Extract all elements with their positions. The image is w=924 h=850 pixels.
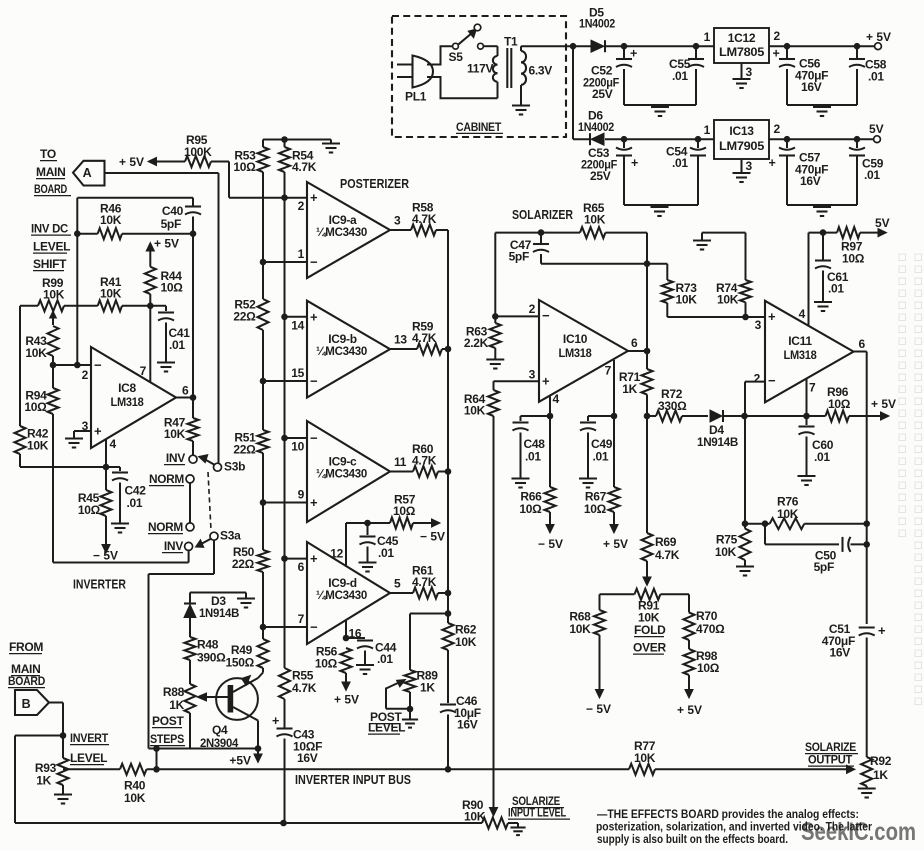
svg-text:LM318: LM318 xyxy=(111,395,145,409)
svg-text:6: 6 xyxy=(631,336,638,350)
svg-text:10K: 10K xyxy=(717,293,739,307)
svg-text:10Ω: 10Ω xyxy=(161,281,184,295)
svg-text:330Ω: 330Ω xyxy=(658,399,687,413)
svg-text:3: 3 xyxy=(82,419,89,433)
svg-text:FOLD: FOLD xyxy=(634,623,666,637)
svg-text:2N3904: 2N3904 xyxy=(200,736,239,750)
svg-text:A: A xyxy=(83,166,92,180)
svg-text:+: + xyxy=(94,424,102,439)
svg-text:−: − xyxy=(310,431,318,446)
svg-text:STEPS: STEPS xyxy=(150,732,184,746)
svg-text:4: 4 xyxy=(553,392,560,406)
svg-text:−: − xyxy=(310,255,318,270)
svg-text:R70: R70 xyxy=(696,609,718,623)
svg-text:10: 10 xyxy=(291,440,304,454)
svg-text:PL1: PL1 xyxy=(405,90,427,104)
svg-text:16V: 16V xyxy=(801,80,822,94)
svg-text:LEVEL: LEVEL xyxy=(70,751,107,765)
svg-text:¼MC3430: ¼MC3430 xyxy=(316,590,367,602)
svg-text:IC13: IC13 xyxy=(729,124,754,138)
svg-text:4: 4 xyxy=(110,437,117,451)
svg-text:4.7K: 4.7K xyxy=(412,331,437,345)
svg-text:4.7K: 4.7K xyxy=(292,681,317,695)
svg-text:7: 7 xyxy=(140,364,147,378)
svg-text:10Ω: 10Ω xyxy=(697,661,720,675)
svg-text:22Ω: 22Ω xyxy=(233,310,256,324)
svg-text:4.7K: 4.7K xyxy=(292,160,317,174)
svg-text:10K: 10K xyxy=(569,622,591,636)
svg-text:22Ω: 22Ω xyxy=(233,443,256,457)
svg-text:10K: 10K xyxy=(25,346,47,360)
svg-text:NORM: NORM xyxy=(148,520,183,534)
svg-text:+5V: +5V xyxy=(229,754,251,768)
svg-text:10Ω: 10Ω xyxy=(393,504,416,518)
svg-text:S3a: S3a xyxy=(220,529,241,543)
svg-text:IC9-c: IC9-c xyxy=(329,455,357,469)
svg-text:R92: R92 xyxy=(870,754,892,768)
svg-text:2: 2 xyxy=(82,368,89,382)
svg-text:Q4: Q4 xyxy=(212,723,228,737)
svg-text:NORM: NORM xyxy=(149,472,184,486)
svg-text:R69: R69 xyxy=(655,535,677,549)
svg-text:10Ω: 10Ω xyxy=(233,160,256,174)
svg-text:¼MC3430: ¼MC3430 xyxy=(316,227,367,239)
svg-text:5pF: 5pF xyxy=(161,217,181,231)
svg-text:10Ω: 10Ω xyxy=(842,252,865,266)
svg-text:1: 1 xyxy=(704,30,711,44)
svg-text:10K: 10K xyxy=(584,213,606,227)
svg-text:IC9-d: IC9-d xyxy=(328,576,357,590)
svg-text:7: 7 xyxy=(298,612,305,626)
svg-text:− 5V: − 5V xyxy=(586,702,611,716)
svg-text:1: 1 xyxy=(704,123,711,137)
svg-text:¼MC3430: ¼MC3430 xyxy=(316,469,367,481)
svg-text:.01: .01 xyxy=(672,69,688,83)
svg-text:6: 6 xyxy=(859,337,866,351)
svg-text:POST: POST xyxy=(152,714,184,728)
svg-text:2: 2 xyxy=(754,372,761,386)
svg-text:MAIN: MAIN xyxy=(36,165,65,179)
svg-text:25V: 25V xyxy=(590,169,611,183)
svg-text:+: + xyxy=(542,374,550,389)
svg-text:6.3V: 6.3V xyxy=(529,64,553,78)
svg-text:+ 5V: + 5V xyxy=(119,155,144,169)
svg-text:SOLARIZER: SOLARIZER xyxy=(512,207,573,222)
svg-text:.01: .01 xyxy=(864,168,880,182)
svg-text:.01: .01 xyxy=(672,156,688,170)
svg-text:C40: C40 xyxy=(162,204,184,218)
svg-text:+: + xyxy=(310,551,318,566)
svg-text:16V: 16V xyxy=(457,718,478,732)
svg-text:15: 15 xyxy=(291,366,304,380)
svg-text:117V: 117V xyxy=(467,62,493,76)
svg-text:INV: INV xyxy=(166,451,185,465)
svg-text:16: 16 xyxy=(349,627,362,641)
svg-text:IC10: IC10 xyxy=(563,332,588,346)
svg-text:R88: R88 xyxy=(163,685,185,699)
svg-text:1K: 1K xyxy=(169,698,184,712)
svg-text:2.2K: 2.2K xyxy=(464,336,489,350)
svg-text:LEVEL: LEVEL xyxy=(368,721,405,735)
svg-text:B: B xyxy=(22,697,31,711)
svg-text:9: 9 xyxy=(298,488,305,502)
svg-text:LM7905: LM7905 xyxy=(719,139,765,153)
svg-text:LEVEL: LEVEL xyxy=(33,240,70,254)
svg-text:supply is also built on the ef: supply is also built on the effects boar… xyxy=(597,832,788,846)
svg-text:10K: 10K xyxy=(455,635,477,649)
svg-text:+: + xyxy=(310,190,318,205)
svg-text:5V: 5V xyxy=(875,216,890,230)
svg-text:10K: 10K xyxy=(27,439,49,453)
svg-text:2: 2 xyxy=(529,302,536,316)
svg-text:S3b: S3b xyxy=(224,460,245,474)
svg-text:3: 3 xyxy=(746,65,753,79)
svg-text:.01: .01 xyxy=(525,450,541,464)
svg-text:¼MC3430: ¼MC3430 xyxy=(316,346,367,358)
svg-text:.01: .01 xyxy=(377,652,393,666)
svg-text:1N914B: 1N914B xyxy=(697,435,739,449)
svg-text:S5: S5 xyxy=(449,50,464,64)
svg-text:150Ω: 150Ω xyxy=(226,656,255,670)
svg-text:10K: 10K xyxy=(777,507,799,521)
svg-text:10K: 10K xyxy=(100,287,122,301)
svg-text:+: + xyxy=(631,156,638,170)
svg-text:10K: 10K xyxy=(715,545,737,559)
svg-text:10Ω: 10Ω xyxy=(24,400,47,414)
svg-text:1C12: 1C12 xyxy=(728,31,756,45)
svg-text:+: + xyxy=(773,47,780,61)
svg-text:13: 13 xyxy=(394,333,407,347)
svg-text:3: 3 xyxy=(529,368,536,382)
svg-text:.01: .01 xyxy=(814,450,830,464)
svg-text:+ 5V: + 5V xyxy=(677,703,702,717)
svg-text:1K: 1K xyxy=(420,681,435,695)
svg-text:+ 5V: + 5V xyxy=(866,30,891,44)
svg-text:LM7805: LM7805 xyxy=(719,45,765,59)
svg-text:16V: 16V xyxy=(830,646,851,660)
svg-text:INV DC: INV DC xyxy=(31,222,69,236)
svg-text:16V: 16V xyxy=(800,174,821,188)
svg-text:+ 5V: + 5V xyxy=(603,537,628,551)
svg-text:3: 3 xyxy=(746,159,753,173)
svg-text:10K: 10K xyxy=(634,751,656,765)
svg-text:1K: 1K xyxy=(622,382,637,396)
svg-text:1: 1 xyxy=(298,247,305,261)
svg-text:−: − xyxy=(94,358,102,373)
svg-text:LM318: LM318 xyxy=(559,346,593,360)
svg-text:.01: .01 xyxy=(593,450,609,464)
svg-text:+: + xyxy=(272,714,279,728)
svg-text:10Ω: 10Ω xyxy=(78,503,101,517)
svg-text:+: + xyxy=(878,623,886,638)
svg-text:14: 14 xyxy=(291,318,304,332)
svg-text:OVER: OVER xyxy=(633,641,666,655)
svg-text:INVERT: INVERT xyxy=(70,731,109,745)
svg-text:6: 6 xyxy=(298,560,305,574)
svg-text:IC9-b: IC9-b xyxy=(328,332,357,346)
svg-text:2: 2 xyxy=(774,122,781,136)
svg-text:+: + xyxy=(630,47,637,61)
svg-text:10Ω: 10Ω xyxy=(315,657,338,671)
svg-text:R48: R48 xyxy=(197,638,219,652)
svg-text:−: − xyxy=(310,374,318,389)
svg-text:.01: .01 xyxy=(828,282,844,296)
svg-text:−: − xyxy=(310,620,318,635)
svg-text:10K: 10K xyxy=(100,213,122,227)
svg-text:100K: 100K xyxy=(184,145,212,159)
svg-text:1K: 1K xyxy=(873,768,888,782)
svg-text:FROM: FROM xyxy=(9,640,43,654)
svg-text:1N914B: 1N914B xyxy=(199,606,240,620)
svg-text:BOARD: BOARD xyxy=(8,674,46,688)
svg-text:390Ω: 390Ω xyxy=(197,651,226,665)
svg-text:10K: 10K xyxy=(464,810,486,824)
svg-text:IC11: IC11 xyxy=(788,334,812,348)
svg-text:CABINET: CABINET xyxy=(456,120,502,134)
svg-text:1K: 1K xyxy=(36,774,51,788)
svg-text:−: − xyxy=(542,308,550,323)
svg-text:10K: 10K xyxy=(676,293,698,307)
svg-text:SHIFT: SHIFT xyxy=(33,257,67,271)
svg-text:1N4002: 1N4002 xyxy=(578,120,615,134)
svg-text:.01: .01 xyxy=(378,546,394,560)
svg-text:470Ω: 470Ω xyxy=(696,622,725,636)
svg-text:− 5V: − 5V xyxy=(93,549,118,563)
svg-text:− 5V: − 5V xyxy=(538,537,563,551)
svg-text:10K: 10K xyxy=(464,404,486,418)
svg-text:IC8: IC8 xyxy=(118,381,136,395)
svg-text:6: 6 xyxy=(182,384,189,398)
svg-text:INVERTER: INVERTER xyxy=(73,577,126,592)
svg-text:4.7K: 4.7K xyxy=(655,548,680,562)
svg-text:+ 5V: + 5V xyxy=(334,693,359,707)
svg-text:.01: .01 xyxy=(127,496,143,510)
svg-text:12: 12 xyxy=(330,547,343,561)
svg-text:4.7K: 4.7K xyxy=(412,212,437,226)
svg-text:POSTERIZER: POSTERIZER xyxy=(340,176,409,191)
svg-text:.01: .01 xyxy=(169,338,185,352)
svg-text:3: 3 xyxy=(394,214,401,228)
svg-text:BOARD: BOARD xyxy=(34,182,67,196)
svg-text:5: 5 xyxy=(394,577,401,591)
svg-text:IC9-a: IC9-a xyxy=(329,213,357,227)
svg-text:+: + xyxy=(768,309,776,324)
svg-text:2: 2 xyxy=(774,29,781,43)
svg-text:−: − xyxy=(768,373,776,388)
svg-text:.01: .01 xyxy=(868,70,884,84)
svg-text:10K: 10K xyxy=(124,791,146,805)
svg-text:+ 5V: + 5V xyxy=(154,237,179,251)
svg-text:4: 4 xyxy=(799,307,806,321)
svg-text:1N4002: 1N4002 xyxy=(579,17,616,31)
svg-text:4.7K: 4.7K xyxy=(412,575,437,589)
svg-text:5pF: 5pF xyxy=(509,250,529,264)
svg-text:10Ω: 10Ω xyxy=(584,502,607,516)
svg-text:7: 7 xyxy=(605,364,612,378)
svg-text:3: 3 xyxy=(755,318,762,332)
svg-text:5V: 5V xyxy=(869,122,884,136)
svg-text:2: 2 xyxy=(298,199,305,213)
svg-text:16V: 16V xyxy=(297,751,318,765)
svg-text:25V: 25V xyxy=(592,87,613,101)
svg-text:10K: 10K xyxy=(43,288,65,302)
svg-text:INPUT LEVEL: INPUT LEVEL xyxy=(508,806,566,820)
svg-text:INV: INV xyxy=(164,539,183,553)
svg-text:T1: T1 xyxy=(504,35,518,49)
svg-text:+: + xyxy=(769,156,776,170)
svg-text:+ 5V: + 5V xyxy=(871,397,896,411)
svg-text:LM318: LM318 xyxy=(784,348,818,362)
svg-text:− 5V: − 5V xyxy=(420,530,445,544)
svg-text:TO: TO xyxy=(40,147,56,161)
svg-text:5pF: 5pF xyxy=(814,560,834,574)
svg-text:OUTPUT: OUTPUT xyxy=(808,753,853,767)
svg-text:+: + xyxy=(310,495,318,510)
svg-text:11: 11 xyxy=(394,455,407,469)
svg-text:10Ω: 10Ω xyxy=(519,502,542,516)
svg-text:10K: 10K xyxy=(164,427,186,441)
svg-text:22Ω: 22Ω xyxy=(232,557,255,571)
svg-text:+: + xyxy=(310,309,318,324)
svg-text:7: 7 xyxy=(809,381,816,395)
svg-text:INVERTER INPUT BUS: INVERTER INPUT BUS xyxy=(295,772,411,787)
svg-text:4.7K: 4.7K xyxy=(412,454,437,468)
svg-text:10Ω: 10Ω xyxy=(828,397,851,411)
